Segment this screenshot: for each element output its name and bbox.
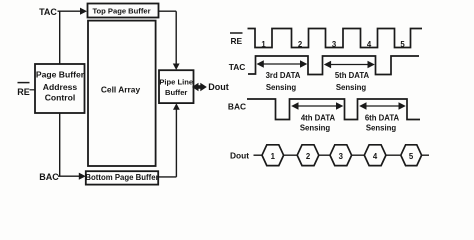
svg-text:Buffer: Buffer (165, 88, 187, 97)
svg-text:3rd DATA: 3rd DATA (266, 71, 301, 80)
svg-text:Dout: Dout (208, 82, 229, 92)
svg-text:Control: Control (45, 92, 76, 102)
svg-text:Bottom Page Buffer: Bottom Page Buffer (85, 173, 158, 182)
svg-text:4: 4 (373, 152, 378, 161)
svg-text:2: 2 (298, 40, 303, 49)
svg-text:BAC: BAC (228, 102, 246, 112)
svg-text:3: 3 (332, 40, 337, 49)
svg-text:Address: Address (43, 82, 78, 92)
svg-text:Pipe Line: Pipe Line (159, 77, 193, 86)
svg-text:2: 2 (306, 152, 311, 161)
svg-text:Sensing: Sensing (366, 124, 397, 133)
svg-text:TAC: TAC (39, 7, 57, 17)
svg-text:4th DATA: 4th DATA (301, 113, 336, 122)
svg-text:5th DATA: 5th DATA (335, 71, 370, 80)
svg-text:BAC: BAC (39, 172, 59, 182)
svg-text:Top Page Buffer: Top Page Buffer (92, 7, 150, 16)
svg-text:3: 3 (339, 152, 344, 161)
svg-text:4: 4 (367, 40, 372, 49)
svg-text:1: 1 (261, 40, 266, 49)
svg-text:Dout: Dout (230, 151, 249, 161)
svg-text:5: 5 (409, 152, 414, 161)
svg-text:RE: RE (230, 36, 242, 46)
svg-text:Cell Array: Cell Array (101, 84, 141, 94)
svg-text:TAC: TAC (229, 62, 246, 72)
svg-text:6th DATA: 6th DATA (365, 113, 400, 122)
svg-text:1: 1 (271, 152, 276, 161)
svg-text:Sensing: Sensing (266, 83, 297, 92)
svg-text:Page Buffer: Page Buffer (36, 69, 85, 79)
svg-text:Sensing: Sensing (300, 124, 331, 133)
svg-text:RE: RE (17, 87, 30, 97)
svg-text:Sensing: Sensing (336, 83, 367, 92)
svg-text:5: 5 (400, 40, 405, 49)
